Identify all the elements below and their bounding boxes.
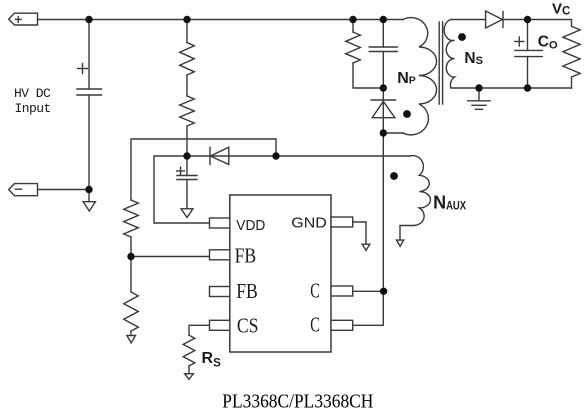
svg-text:VDD: VDD: [236, 217, 265, 234]
svg-text:C: C: [310, 279, 320, 303]
svg-text:CS: CS: [237, 313, 259, 337]
svg-text:C: C: [310, 313, 320, 337]
svg-text:Input: Input: [15, 101, 51, 116]
svg-text:HV DC: HV DC: [14, 86, 51, 101]
svg-text:PL3368C/PL3368CH: PL3368C/PL3368CH: [222, 391, 373, 413]
svg-text:GND: GND: [291, 215, 327, 232]
svg-text:FB: FB: [235, 244, 257, 268]
svg-text:FB: FB: [236, 279, 258, 303]
